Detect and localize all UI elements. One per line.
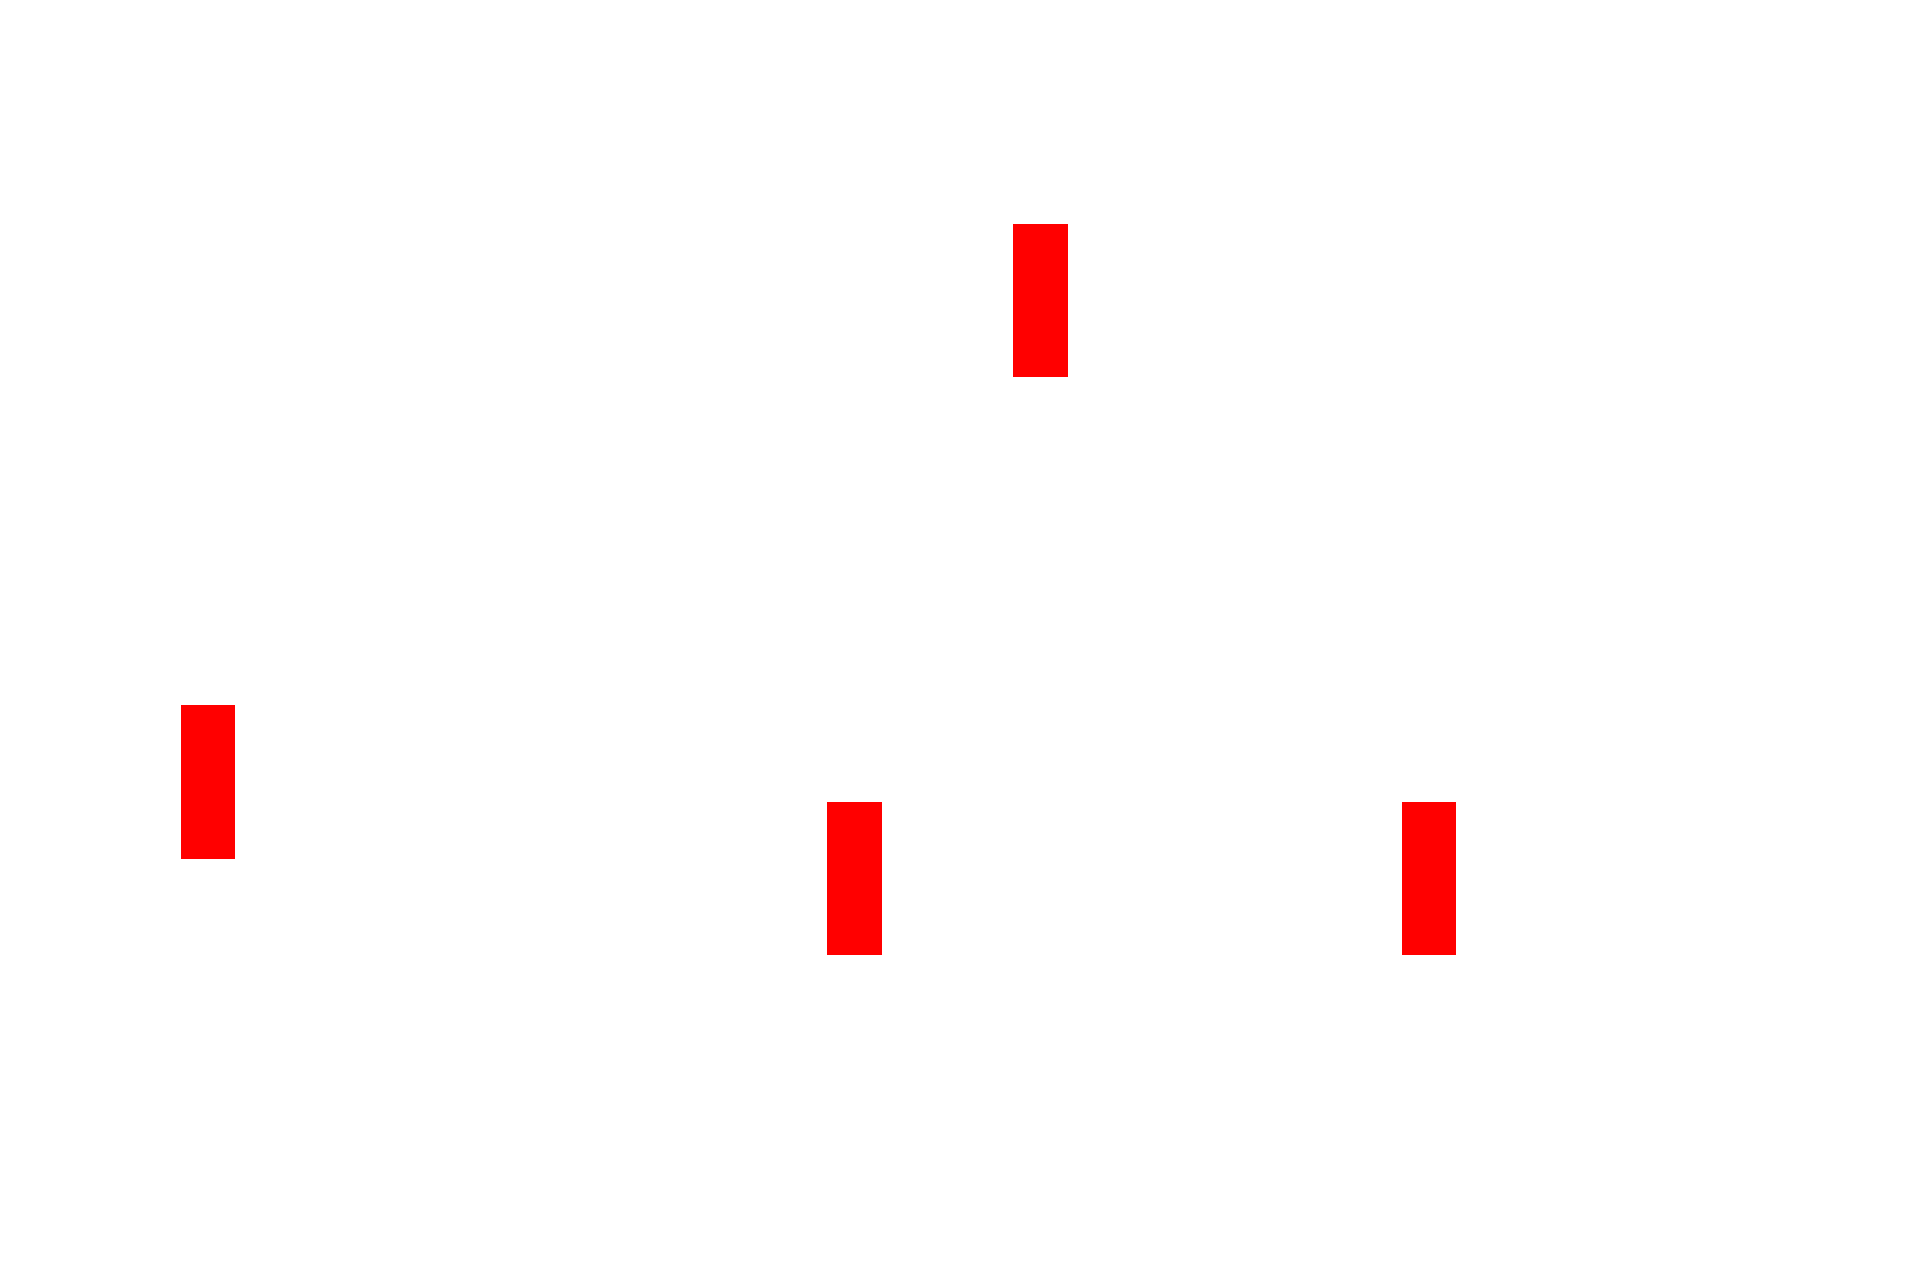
red marker bar 1 (top center)	[1013, 224, 1068, 377]
red marker bar 4 (bottom right)	[1402, 802, 1456, 955]
red marker bar 2 (left middle)	[181, 705, 235, 859]
red marker bar 3 (bottom center)	[827, 802, 882, 955]
